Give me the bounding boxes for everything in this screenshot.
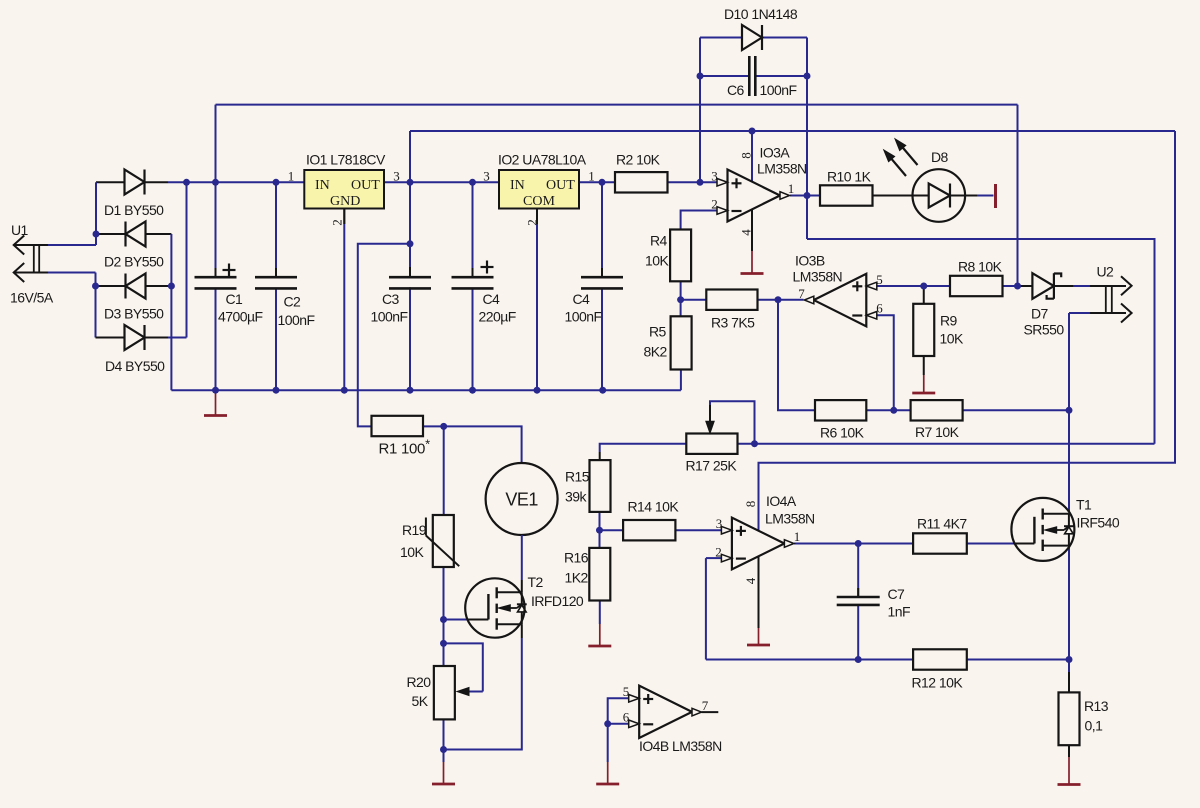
- svg-text:R4: R4: [650, 233, 668, 249]
- svg-text:220µF: 220µF: [479, 309, 516, 325]
- svg-text:6: 6: [623, 710, 630, 725]
- svg-text:IO3A: IO3A: [760, 145, 791, 161]
- svg-text:LM358N: LM358N: [757, 161, 807, 177]
- svg-text:1: 1: [288, 169, 295, 184]
- svg-text:D2 BY550: D2 BY550: [104, 254, 164, 270]
- svg-text:3: 3: [393, 169, 400, 184]
- svg-text:5: 5: [876, 272, 883, 287]
- svg-text:8: 8: [743, 501, 758, 508]
- svg-text:R12 10K: R12 10K: [912, 675, 964, 691]
- svg-text:3: 3: [483, 169, 490, 184]
- svg-text:D8: D8: [931, 149, 949, 165]
- svg-text:C1: C1: [226, 291, 244, 307]
- svg-text:U1: U1: [11, 222, 29, 238]
- svg-text:R1 100*: R1 100*: [379, 437, 431, 458]
- svg-text:R8 10K: R8 10K: [958, 259, 1003, 275]
- svg-text:8K2: 8K2: [644, 344, 668, 360]
- svg-text:R5: R5: [649, 324, 667, 340]
- svg-text:LM358N: LM358N: [765, 511, 815, 527]
- svg-text:IO3B: IO3B: [795, 253, 825, 269]
- svg-text:T2: T2: [528, 574, 544, 590]
- svg-text:4700µF: 4700µF: [218, 309, 262, 325]
- svg-text:100nF: 100nF: [371, 309, 408, 325]
- svg-text:IO4A: IO4A: [766, 493, 797, 509]
- svg-text:IN: IN: [315, 178, 330, 193]
- svg-text:10K: 10K: [645, 253, 669, 269]
- svg-text:5K: 5K: [412, 693, 429, 709]
- svg-text:R6 10K: R6 10K: [820, 425, 865, 441]
- svg-text:SR550: SR550: [1024, 322, 1065, 338]
- svg-text:T1: T1: [1076, 497, 1092, 513]
- svg-text:1K2: 1K2: [565, 570, 589, 586]
- svg-text:10K: 10K: [940, 331, 964, 347]
- svg-text:C2: C2: [284, 294, 302, 310]
- svg-text:IO1 L7818CV: IO1 L7818CV: [306, 152, 386, 168]
- svg-text:OUT: OUT: [351, 178, 380, 193]
- svg-text:C7: C7: [888, 586, 906, 602]
- svg-text:5: 5: [623, 684, 630, 699]
- svg-text:2: 2: [330, 219, 345, 226]
- svg-text:IN: IN: [510, 178, 525, 193]
- svg-text:2: 2: [711, 197, 718, 212]
- svg-text:R15: R15: [565, 469, 590, 485]
- svg-text:IO2 UA78L10A: IO2 UA78L10A: [498, 152, 587, 168]
- svg-text:C4: C4: [483, 291, 501, 307]
- svg-text:10K: 10K: [400, 544, 424, 560]
- svg-text:7: 7: [702, 698, 709, 713]
- svg-text:COM: COM: [523, 194, 555, 209]
- svg-text:R20: R20: [407, 674, 432, 690]
- svg-text:R9: R9: [940, 313, 958, 329]
- svg-text:4: 4: [739, 229, 754, 236]
- svg-text:2: 2: [525, 219, 540, 226]
- svg-text:IO4B LM358N: IO4B LM358N: [639, 738, 722, 754]
- svg-text:R7 10K: R7 10K: [915, 424, 960, 440]
- svg-text:100nF: 100nF: [565, 309, 602, 325]
- svg-text:VE1: VE1: [505, 490, 538, 510]
- svg-text:R10 1K: R10 1K: [827, 169, 872, 185]
- svg-text:16V/5A: 16V/5A: [10, 290, 54, 306]
- svg-text:LM358N: LM358N: [793, 269, 843, 285]
- svg-text:IRFD120: IRFD120: [531, 593, 584, 609]
- svg-text:1: 1: [794, 529, 801, 544]
- svg-text:IRF540: IRF540: [1077, 515, 1120, 531]
- svg-text:3: 3: [711, 169, 718, 184]
- svg-text:7: 7: [798, 286, 805, 301]
- svg-text:R17 25K: R17 25K: [686, 458, 738, 474]
- svg-text:D4 BY550: D4 BY550: [105, 358, 165, 374]
- svg-text:0,1: 0,1: [1085, 718, 1104, 734]
- svg-text:D10 1N4148: D10 1N4148: [724, 6, 798, 22]
- svg-text:R14 10K: R14 10K: [628, 499, 680, 515]
- svg-text:100nF: 100nF: [278, 312, 315, 328]
- svg-text:3: 3: [716, 516, 723, 531]
- svg-text:6: 6: [876, 301, 883, 316]
- svg-text:R13: R13: [1084, 698, 1109, 714]
- svg-text:GND: GND: [330, 194, 360, 209]
- svg-text:39k: 39k: [565, 489, 587, 505]
- svg-text:C6: C6: [727, 82, 745, 98]
- svg-text:OUT: OUT: [546, 178, 575, 193]
- svg-text:1: 1: [788, 181, 795, 196]
- svg-text:8: 8: [739, 152, 754, 159]
- svg-text:D1 BY550: D1 BY550: [104, 202, 164, 218]
- svg-text:R2 10K: R2 10K: [616, 152, 661, 168]
- svg-text:100nF: 100nF: [760, 82, 797, 98]
- svg-text:R11 4K7: R11 4K7: [917, 516, 967, 532]
- svg-text:C4: C4: [573, 291, 591, 307]
- svg-text:1nF: 1nF: [888, 604, 910, 620]
- svg-text:R3 7K5: R3 7K5: [711, 315, 755, 331]
- svg-text:4: 4: [743, 577, 758, 584]
- svg-text:D7: D7: [1031, 306, 1049, 322]
- svg-text:R19: R19: [402, 522, 427, 538]
- svg-text:R16: R16: [564, 550, 589, 566]
- svg-text:D3 BY550: D3 BY550: [104, 306, 164, 322]
- svg-text:2: 2: [715, 545, 722, 560]
- svg-text:C3: C3: [382, 291, 400, 307]
- svg-text:U2: U2: [1097, 264, 1115, 280]
- svg-text:1: 1: [588, 169, 595, 184]
